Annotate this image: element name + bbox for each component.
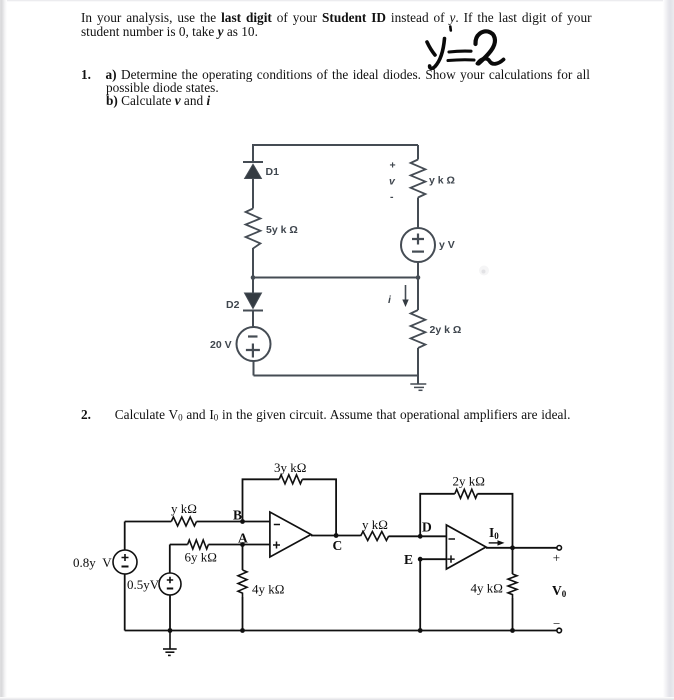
node B [240,519,245,524]
item 1 line 2 [106,80,219,96]
wire row A left vertical [169,545,171,574]
page edge shading [0,0,674,2]
faint smudge [479,266,489,276]
svg-text:D2: D2 [226,299,240,311]
wire mid [253,277,418,279]
wire U1 out [311,535,361,537]
wire source2 bottom [169,595,171,631]
paragraph line 1 [81,10,592,26]
resistor y kΩ mid [361,532,389,541]
resistor 2y kΩ [411,310,426,348]
terminal minus [557,628,562,633]
wire right lower [417,348,419,384]
node rail-gnd [168,628,173,633]
wire source1 top [124,522,126,551]
wire E [420,559,446,630]
rail bottom [125,630,557,632]
U1 plus [273,542,280,549]
handwritten y=2 [427,27,504,69]
wire r4r down [512,598,514,631]
item 1 number [81,67,91,83]
wire bottom [254,375,419,377]
wire left upper [252,144,254,163]
voltage source 20 V [237,327,271,361]
wire C-D [389,535,447,537]
svg-text:y kΩ: y kΩ [362,517,388,532]
feedback1 wire up-over-down [243,479,337,535]
U1 minus [274,524,280,526]
svg-text:-: - [390,191,394,203]
resistor 5y kΩ [246,209,261,249]
wire left to mid [252,248,254,278]
item 1 line a [106,67,590,83]
wire A down [242,545,244,571]
svg-text:4y kΩ: 4y kΩ [471,581,503,596]
diode D2 [243,293,263,327]
svg-text:6y kΩ: 6y kΩ [185,550,217,565]
svg-text:A: A [238,531,248,546]
wire row B right [197,521,270,523]
svg-text:E: E [404,552,413,567]
item 1 line b [106,93,210,109]
node A [240,542,245,547]
op-amp U2 [446,525,486,569]
node C [334,533,339,538]
ground ckt1 [410,384,426,390]
voltage source 0.8y V [113,550,137,574]
wire above D2 [252,278,254,294]
paragraph line 2 [81,24,258,40]
node rail-out [510,628,515,633]
resistor 6y kΩ [188,540,209,549]
svg-text:2y kΩ: 2y kΩ [453,474,485,489]
resistor 3y kΩ [279,475,302,484]
node rail-E [418,628,423,633]
svg-text:y kΩ: y kΩ [171,501,197,516]
svg-text:y V: y V [439,239,455,251]
svg-text:I0: I0 [489,525,499,541]
svg-text:C: C [333,538,343,553]
wire source1 bottom [124,574,126,631]
svg-text:y k Ω: y k Ω [429,175,455,187]
wire r4 down [242,597,244,631]
terminal plus [557,546,562,551]
svg-text:B: B [233,508,242,523]
node out [510,545,515,550]
svg-text:v: v [389,176,396,188]
svg-text:0.8y V: 0.8y V [73,555,112,570]
node D [418,534,423,539]
svg-text:D1: D1 [266,166,280,178]
current arrow i [402,285,408,307]
diode D1 [243,162,263,209]
wire U2 out [486,547,557,549]
voltage source y V [401,228,435,262]
arrow I0 [489,540,505,545]
wire right mid2 [417,262,419,310]
op-amp U1 [270,512,311,557]
node E [418,557,423,562]
wire left lower [253,361,255,376]
node mid-right [416,275,421,280]
svg-text:D: D [422,520,432,535]
svg-text:4y kΩ: 4y kΩ [252,582,284,597]
svg-text:20 V: 20 V [210,339,232,351]
voltage source 0.5yV [159,573,181,595]
node rail-A [240,628,245,633]
wire row A [170,544,270,546]
svg-text:V0: V0 [552,583,567,599]
wire right upper [417,145,419,160]
wire top [253,144,418,146]
U2 plus [447,555,454,562]
svg-text:i: i [388,294,392,306]
resistor y kΩ input [171,517,196,526]
resistor 4y kΩ left [238,570,247,597]
U2 minus [449,538,456,540]
item 2 text [115,407,571,423]
item 2 number [81,407,91,423]
feedback2 wire [420,494,512,548]
resistor 4y kΩ right [512,548,514,574]
wire row B left [125,521,172,523]
ground ckt2 [163,631,177,656]
svg-text:0.5yV: 0.5yV [127,577,160,592]
svg-text:3y kΩ: 3y kΩ [274,460,306,475]
node mid-left [251,275,256,280]
svg-text:2y k Ω: 2y k Ω [430,324,462,336]
svg-text:+: + [390,160,396,172]
svg-text:+: + [553,550,560,565]
svg-text:5y k Ω: 5y k Ω [266,224,298,236]
resistor 2y kΩ [455,489,478,498]
wire right mid1 [417,198,419,229]
resistor y kΩ [411,160,426,198]
